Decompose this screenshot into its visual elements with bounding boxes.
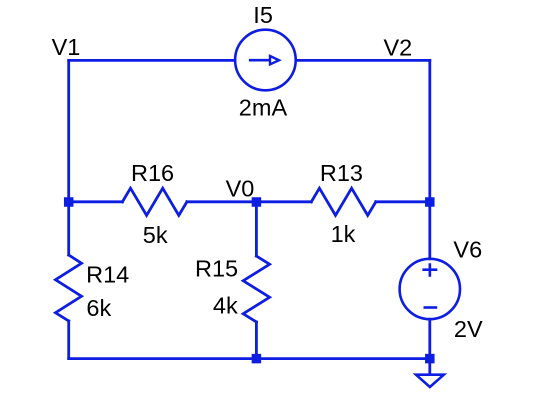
resistor R14 [56, 255, 82, 321]
svg-text:R15: R15 [195, 255, 238, 281]
wire middle rail R16 to R13 [187, 200, 311, 203]
svg-text:V1: V1 [52, 34, 81, 60]
svg-text:V0: V0 [226, 175, 255, 201]
node junction V0 [252, 197, 262, 207]
svg-text:2V: 2V [454, 316, 483, 342]
svg-text:4k: 4k [213, 293, 238, 319]
svg-text:R14: R14 [86, 262, 129, 288]
svg-text:V2: V2 [384, 34, 413, 60]
wire left vertical upper [67, 60, 70, 255]
wire middle rail V1 to R16 [69, 200, 123, 203]
resistor R16 [122, 188, 186, 215]
current source I5 [235, 30, 296, 91]
svg-text:I5: I5 [253, 2, 273, 28]
svg-text:6k: 6k [86, 295, 111, 321]
svg-text:2mA: 2mA [239, 95, 288, 121]
voltage source V6 [400, 259, 460, 319]
ground [416, 375, 444, 387]
resistor R15 [243, 256, 269, 322]
node junction bottom-middle [252, 354, 262, 364]
node junction left-middle [64, 197, 73, 207]
wire left vertical lower [67, 321, 70, 359]
wire right vertical lower [428, 319, 431, 373]
node junction right-middle [425, 197, 435, 207]
svg-text:1k: 1k [331, 221, 356, 247]
wire middle rail R13 to V2 branch [376, 200, 430, 203]
wire middle vertical lower [255, 322, 258, 359]
wire right vertical upper [428, 60, 431, 258]
wire top rail left segment [69, 59, 235, 62]
node junction bottom-right [425, 354, 435, 364]
resistor R13 [311, 188, 376, 215]
svg-text:R13: R13 [320, 160, 363, 186]
wire bottom rail [69, 357, 430, 360]
wire top rail right segment [296, 59, 430, 62]
svg-text:R16: R16 [131, 160, 174, 186]
svg-text:V6: V6 [453, 236, 482, 262]
wire middle vertical upper [255, 202, 258, 256]
svg-text:5k: 5k [143, 222, 168, 248]
